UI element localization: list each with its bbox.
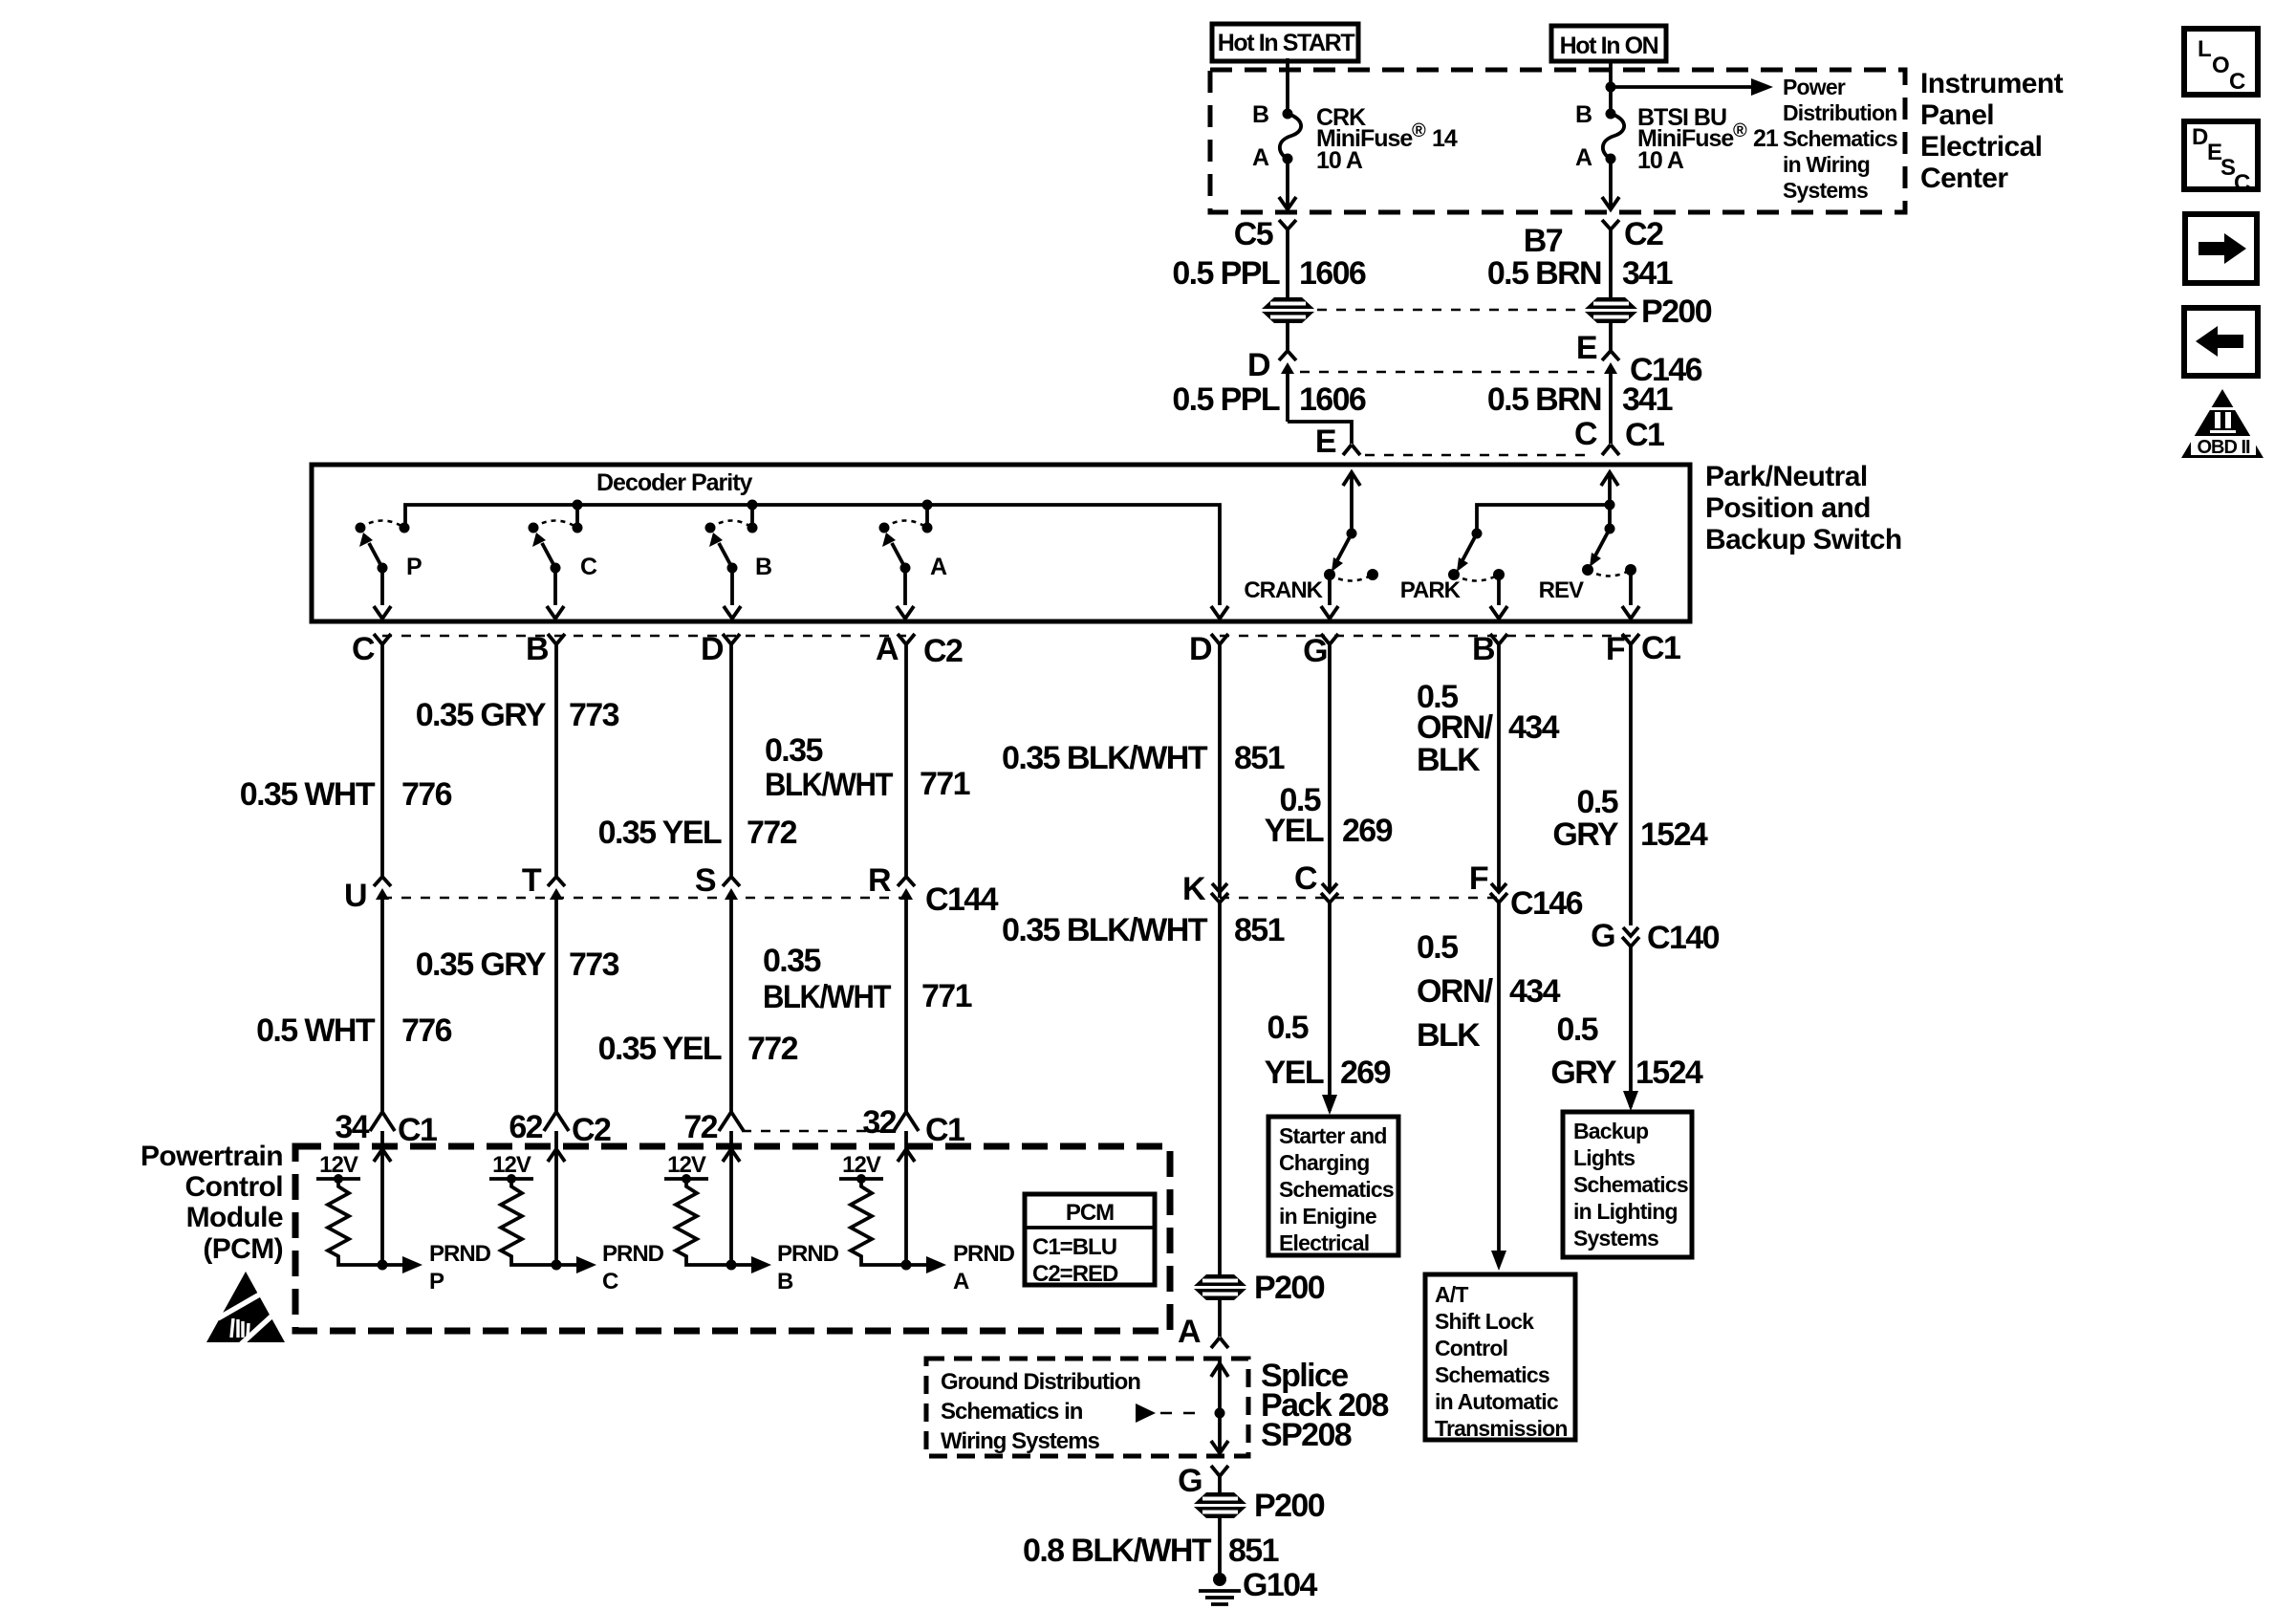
connector C2 pin 62	[509, 1109, 611, 1148]
connector C146 glyph D	[1247, 347, 1296, 422]
wire D upper segment	[729, 660, 733, 876]
svg-text:C: C	[580, 554, 597, 580]
svg-text:PRND: PRND	[953, 1241, 1015, 1267]
svg-text:P: P	[406, 554, 422, 580]
svg-text:C: C	[2229, 69, 2245, 95]
Hot In START box	[1212, 24, 1358, 61]
connector C146 glyph F	[1469, 860, 1583, 1262]
label Instrument Panel Electrical Center	[1920, 68, 2064, 194]
svg-text:C2: C2	[572, 1112, 611, 1148]
label 0.35 YEL 772 upper	[598, 815, 797, 851]
svg-text:BLK/WHT: BLK/WHT	[765, 767, 894, 803]
svg-text:G: G	[1303, 633, 1327, 669]
label 0.5 BRN 341	[1487, 255, 1673, 292]
svg-text:Decoder Parity: Decoder Parity	[596, 469, 753, 496]
svg-text:10 A: 10 A	[1637, 147, 1684, 174]
svg-text:Instrument: Instrument	[1920, 68, 2064, 99]
svg-text:Systems: Systems	[1783, 178, 1868, 203]
svg-text:B: B	[1575, 101, 1592, 128]
svg-text:Position and: Position and	[1705, 492, 1871, 524]
label 0.5 PPL 1606	[1172, 255, 1366, 292]
Powertrain Control Module dashed box	[295, 1146, 1170, 1331]
svg-text:E: E	[1576, 330, 1597, 366]
connector A into splice pack	[1178, 1314, 1228, 1350]
connector C146 glyph C	[1294, 860, 1338, 1099]
label 0.5 ORN/BLK 434 upper	[1417, 679, 1560, 778]
svg-text:B: B	[1472, 631, 1495, 667]
svg-text:PARK: PARK	[1400, 577, 1462, 603]
svg-text:Powertrain: Powertrain	[141, 1141, 283, 1172]
svg-text:A: A	[953, 1269, 969, 1295]
svg-text:Shift Lock: Shift Lock	[1435, 1309, 1534, 1334]
svg-text:C5: C5	[1234, 216, 1273, 252]
svg-text:C1=BLU: C1=BLU	[1032, 1234, 1116, 1260]
svg-text:0.35: 0.35	[763, 943, 820, 979]
svg-text:YEL: YEL	[1265, 1055, 1324, 1091]
svg-text:SP208: SP208	[1261, 1417, 1352, 1453]
svg-text:F: F	[1606, 631, 1625, 667]
label 0.5 PPL 1606 lower	[1172, 381, 1366, 418]
svg-text:14: 14	[1432, 125, 1458, 152]
label Park/Neutral Position and Backup Switch	[1705, 461, 1902, 555]
PCM channel B	[664, 1131, 839, 1295]
wire to ground	[1218, 1516, 1222, 1577]
svg-text:R: R	[868, 862, 891, 899]
svg-text:773: 773	[569, 946, 619, 983]
wire fuse CRK to IP box bottom, arrow	[1279, 159, 1296, 209]
label 0.35 BLK/WHT 771 lower	[763, 943, 972, 1015]
wire P200 to C146 right	[1609, 321, 1613, 350]
wire D right upper segment	[1218, 660, 1222, 890]
Splice Pack dashed box	[926, 1359, 1248, 1456]
svg-text:0.5: 0.5	[1267, 1010, 1309, 1046]
svg-text:T: T	[522, 862, 542, 899]
fuse BTSI BU MiniFuse 21	[1575, 101, 1779, 174]
svg-text:Schematics: Schematics	[1435, 1362, 1549, 1387]
svg-text:(PCM): (PCM)	[203, 1233, 283, 1265]
svg-text:G104: G104	[1243, 1567, 1317, 1603]
connector C146 glyph K	[1182, 871, 1228, 1275]
svg-text:Control: Control	[185, 1171, 283, 1203]
label 0.5 WHT 776 lower	[256, 1012, 452, 1049]
svg-text:D: D	[701, 631, 724, 667]
svg-text:12V: 12V	[842, 1152, 881, 1178]
svg-text:BLK: BLK	[1417, 1017, 1481, 1054]
svg-text:Schematics: Schematics	[1783, 126, 1897, 151]
svg-text:Panel: Panel	[1920, 99, 1994, 131]
svg-text:Park/Neutral: Park/Neutral	[1705, 461, 1868, 492]
svg-text:10 A: 10 A	[1316, 147, 1363, 174]
switch A	[879, 505, 948, 619]
Backup Lights Schematics box	[1563, 1112, 1692, 1257]
svg-text:0.35 WHT: 0.35 WHT	[240, 776, 376, 813]
svg-text:771: 771	[920, 766, 970, 802]
label Splice Pack 208 SP208	[1261, 1358, 1388, 1453]
switch C	[529, 521, 598, 620]
svg-text:Electrical: Electrical	[1920, 131, 2042, 163]
svg-text:C: C	[352, 631, 375, 667]
svg-text:341: 341	[1622, 255, 1673, 292]
svg-text:0.35 YEL: 0.35 YEL	[598, 1031, 722, 1067]
svg-text:P200: P200	[1641, 294, 1712, 330]
svg-text:12V: 12V	[492, 1152, 531, 1178]
svg-text:34: 34	[335, 1109, 369, 1145]
svg-text:D: D	[1189, 631, 1212, 667]
svg-text:772: 772	[747, 1031, 798, 1067]
svg-text:Schematics in: Schematics in	[941, 1399, 1083, 1425]
svg-text:B: B	[777, 1269, 793, 1295]
label 0.35 BLK/WHT 851 lower	[1002, 912, 1285, 948]
svg-text:CRANK: CRANK	[1244, 577, 1323, 603]
svg-text:0.5 PPL: 0.5 PPL	[1172, 381, 1279, 418]
PCM legend box	[1025, 1194, 1155, 1287]
connector C2 chevron (fuse 2)	[1524, 216, 1663, 259]
svg-text:C1: C1	[1641, 630, 1680, 666]
label 0.5 GRY 1524 lower	[1550, 1012, 1703, 1091]
svg-text:0.35 GRY: 0.35 GRY	[416, 697, 547, 733]
pointer arrow to splice	[1136, 1403, 1206, 1423]
Hot In ON box	[1551, 26, 1666, 61]
svg-text:776: 776	[401, 1012, 452, 1049]
svg-text:C1: C1	[1625, 417, 1664, 453]
parity bus wire	[405, 505, 1220, 605]
svg-text:Hot In START: Hot In START	[1218, 30, 1355, 56]
svg-text:Module: Module	[186, 1202, 283, 1233]
wire G upper segment	[1328, 660, 1332, 890]
switch PARK	[1400, 505, 1610, 619]
svg-text:0.5: 0.5	[1417, 929, 1458, 966]
svg-text:12V: 12V	[319, 1152, 358, 1178]
svg-text:Ground Distribution: Ground Distribution	[941, 1369, 1140, 1395]
svg-text:A/T: A/T	[1435, 1282, 1468, 1307]
svg-text:269: 269	[1342, 813, 1393, 849]
svg-text:773: 773	[569, 697, 619, 733]
arrow into Starter box	[1322, 1095, 1337, 1115]
svg-text:0.35 YEL: 0.35 YEL	[598, 815, 722, 851]
arrow into A/T Shift Lock box	[1491, 1251, 1506, 1271]
svg-text:D: D	[1247, 347, 1270, 383]
svg-text:D: D	[2192, 124, 2208, 150]
switch P	[356, 505, 578, 619]
svg-text:0.5 BRN: 0.5 BRN	[1487, 381, 1601, 418]
Park/Neutral Position and Backup Switch box	[312, 465, 1690, 621]
label 0.35 WHT 776 upper	[240, 776, 452, 813]
wire BRN C2 to P200	[1609, 229, 1613, 299]
svg-text:YEL: YEL	[1265, 813, 1324, 849]
svg-text:0.5 WHT: 0.5 WHT	[256, 1012, 376, 1049]
switch CRANK	[1244, 472, 1378, 619]
label 0.5 ORN/BLK 434 lower	[1417, 929, 1561, 1054]
inline connector P200 upper (K wire)	[1190, 1270, 1325, 1306]
svg-text:®: ®	[1412, 120, 1426, 141]
label Powertrain Control Module (PCM)	[141, 1141, 283, 1265]
connector C144 dashed line	[382, 897, 906, 900]
svg-text:K: K	[1182, 871, 1206, 907]
switch REV	[1539, 472, 1639, 619]
svg-text:U: U	[344, 878, 366, 914]
svg-text:C: C	[2234, 170, 2250, 196]
svg-text:341: 341	[1622, 381, 1673, 418]
wire P200 to C146 left	[1286, 321, 1289, 350]
svg-text:0.35: 0.35	[765, 732, 822, 769]
connector C144 glyph S	[695, 862, 740, 1113]
svg-text:C146: C146	[1510, 885, 1583, 922]
connector C146 lower dashed line	[1220, 897, 1499, 900]
connector C1 pin 32	[862, 1104, 964, 1148]
svg-text:Center: Center	[1920, 163, 2008, 194]
svg-text:in Automatic: in Automatic	[1435, 1389, 1559, 1414]
connector chevron B right	[1472, 631, 1507, 667]
svg-text:Schematics: Schematics	[1279, 1177, 1394, 1202]
connector chevron D	[701, 631, 740, 667]
icon OBD II triangle	[2181, 389, 2264, 458]
svg-text:21: 21	[1753, 125, 1779, 152]
connector C144 glyph R	[868, 862, 999, 1113]
svg-text:C1: C1	[398, 1112, 437, 1148]
svg-text:ORN/: ORN/	[1417, 973, 1494, 1010]
wire jog to E entry	[1288, 422, 1352, 444]
svg-text:1606: 1606	[1299, 381, 1366, 418]
svg-text:P: P	[429, 1269, 444, 1295]
svg-text:PCM: PCM	[1066, 1200, 1114, 1226]
svg-text:C: C	[602, 1269, 618, 1295]
dashed line C146 top	[1300, 371, 1594, 374]
svg-text:in Enigine: in Enigine	[1279, 1204, 1376, 1229]
label 0.35 BLK/WHT 771 upper	[765, 732, 970, 803]
wire C upper segment	[380, 660, 384, 876]
svg-text:1524: 1524	[1635, 1055, 1703, 1091]
svg-text:ORN/: ORN/	[1417, 709, 1494, 746]
svg-text:C140: C140	[1647, 920, 1720, 956]
svg-text:B: B	[755, 554, 771, 580]
connector E into switch box	[1315, 424, 1360, 460]
inline connector P200 right	[1581, 294, 1712, 330]
connector C144 glyph U	[344, 877, 391, 1113]
svg-text:C144: C144	[925, 881, 999, 918]
svg-text:0.5 PPL: 0.5 PPL	[1172, 255, 1279, 292]
connector C144 glyph T	[522, 862, 565, 1113]
connector chevron D right	[1189, 631, 1228, 667]
svg-text:C: C	[1574, 416, 1597, 452]
A/T Shift Lock Control box	[1425, 1274, 1575, 1441]
svg-text:F: F	[1469, 860, 1488, 897]
Instrument Panel Electrical Center dashed box	[1210, 70, 1905, 212]
svg-text:B7: B7	[1524, 223, 1563, 259]
connector C1 pin 34	[335, 1109, 437, 1148]
Starter and Charging Schematics box	[1268, 1117, 1398, 1255]
svg-text:0.5 BRN: 0.5 BRN	[1487, 255, 1601, 292]
switch B	[705, 505, 772, 619]
label 0.35 BLK/WHT 851 upper	[1002, 740, 1285, 776]
svg-text:in Lighting: in Lighting	[1573, 1199, 1678, 1224]
svg-text:Electrical: Electrical	[1279, 1230, 1369, 1255]
arrow into Backup Lights box	[1623, 1091, 1638, 1111]
svg-text:C2: C2	[923, 633, 963, 669]
svg-text:Distribution: Distribution	[1783, 100, 1896, 125]
svg-text:REV: REV	[1539, 577, 1584, 603]
connector C140 glyph G	[1591, 918, 1719, 1099]
connector chevron G	[1303, 633, 1338, 669]
svg-text:PRND: PRND	[429, 1241, 491, 1267]
wire B upper segment	[554, 660, 558, 876]
svg-text:Wiring Systems: Wiring Systems	[941, 1428, 1099, 1454]
connector G below splice pack	[1178, 1463, 1228, 1499]
connector chevron F + label C1	[1606, 630, 1680, 667]
wire Hot In ON to fuse BTSI	[1609, 61, 1613, 113]
svg-text:S: S	[695, 862, 716, 899]
svg-text:C1: C1	[925, 1112, 964, 1148]
svg-text:771: 771	[921, 978, 972, 1014]
arrow wire to Power Distribution	[1611, 78, 1773, 96]
label 0.5 GRY 1524 upper	[1552, 784, 1708, 853]
svg-text:G: G	[1591, 918, 1614, 954]
svg-text:A: A	[1178, 1314, 1201, 1350]
splice SP208 wire through box	[1211, 1359, 1228, 1456]
svg-text:72: 72	[683, 1109, 717, 1145]
PCM channel A	[839, 1131, 1015, 1295]
svg-text:Power: Power	[1783, 75, 1846, 99]
svg-text:L: L	[2198, 36, 2211, 62]
svg-text:G: G	[1178, 1463, 1202, 1499]
icon arrow right	[2185, 214, 2257, 283]
svg-text:A: A	[930, 554, 947, 580]
svg-text:1606: 1606	[1299, 255, 1366, 292]
wire F upper segment	[1629, 660, 1633, 925]
svg-text:269: 269	[1340, 1055, 1391, 1091]
label 0.35 GRY 773 upper	[416, 697, 619, 733]
svg-text:1524: 1524	[1640, 816, 1708, 853]
svg-text:Backup: Backup	[1573, 1119, 1649, 1143]
svg-text:Control: Control	[1435, 1336, 1507, 1360]
svg-text:®: ®	[1733, 120, 1747, 141]
connector pin 72	[683, 1109, 744, 1145]
svg-text:0.35 GRY: 0.35 GRY	[416, 946, 547, 983]
svg-text:A: A	[1252, 144, 1269, 171]
svg-text:0.5: 0.5	[1577, 784, 1618, 820]
wire B right upper segment	[1497, 660, 1501, 890]
svg-text:A: A	[1575, 144, 1592, 171]
label 0.35 GRY 773 lower	[416, 946, 619, 983]
icon LOC	[2184, 29, 2258, 95]
svg-text:C2=RED: C2=RED	[1032, 1261, 1118, 1287]
connector row C2/C1 below box: dashed lines	[382, 635, 906, 638]
icon arrow left	[2184, 308, 2258, 376]
svg-text:0.8 BLK/WHT: 0.8 BLK/WHT	[1023, 1533, 1212, 1569]
svg-text:C2: C2	[1624, 216, 1663, 252]
bus drop arrow D	[1211, 606, 1228, 619]
svg-text:Schematics: Schematics	[1573, 1172, 1688, 1197]
svg-text:in Wiring: in Wiring	[1783, 152, 1870, 177]
svg-text:GRY: GRY	[1550, 1055, 1617, 1091]
inline connector P200 lower	[1190, 1488, 1325, 1524]
svg-text:Hot In ON: Hot In ON	[1560, 33, 1658, 59]
svg-text:32: 32	[862, 1104, 896, 1141]
label 0.8 BLK/WHT 851	[1023, 1533, 1279, 1569]
svg-text:851: 851	[1234, 740, 1285, 776]
svg-text:Charging: Charging	[1279, 1150, 1370, 1175]
svg-text:PRND: PRND	[777, 1241, 839, 1267]
wire P200 to A	[1218, 1298, 1222, 1337]
ground G104	[1199, 1567, 1317, 1604]
svg-text:Starter and: Starter and	[1279, 1123, 1387, 1148]
svg-text:C: C	[1294, 860, 1317, 897]
inline connector P200 left	[1258, 297, 1318, 323]
svg-text:776: 776	[401, 776, 452, 813]
wire Hot In START to fuse CRK	[1286, 58, 1289, 113]
svg-text:0.35 BLK/WHT: 0.35 BLK/WHT	[1002, 912, 1208, 948]
svg-text:P200: P200	[1254, 1488, 1325, 1524]
label 0.5 YEL 269 upper	[1265, 782, 1393, 849]
svg-text:0.5: 0.5	[1557, 1012, 1598, 1048]
connector C146 glyph E	[1576, 330, 1702, 444]
connector chevron A + label C2	[876, 631, 963, 669]
connector chevron C (pin C)	[352, 631, 391, 667]
svg-text:851: 851	[1234, 912, 1285, 948]
svg-text:A: A	[876, 631, 899, 667]
svg-text:B: B	[1252, 101, 1268, 128]
svg-text:P200: P200	[1254, 1270, 1325, 1306]
svg-text:OBD II: OBD II	[2197, 437, 2250, 458]
svg-text:434: 434	[1509, 973, 1561, 1010]
svg-text:434: 434	[1508, 709, 1560, 746]
connector chevron B	[526, 631, 565, 667]
wire C5 to P200	[1286, 229, 1289, 299]
svg-text:62: 62	[509, 1109, 542, 1145]
PCM channel P	[316, 1131, 491, 1295]
svg-text:Backup Switch: Backup Switch	[1705, 524, 1902, 555]
dashed line C1 row	[1365, 454, 1591, 457]
svg-text:PRND: PRND	[602, 1241, 664, 1267]
svg-text:B: B	[526, 631, 549, 667]
junction node on BTSI wire	[1606, 82, 1616, 93]
svg-text:Lights: Lights	[1573, 1145, 1635, 1170]
svg-text:BLK/WHT: BLK/WHT	[763, 979, 892, 1015]
label 0.35 YEL 772 lower	[598, 1031, 798, 1067]
ESD sensitive symbol	[206, 1272, 285, 1344]
svg-text:Systems: Systems	[1573, 1226, 1658, 1251]
dashed pin line 72-32	[742, 1130, 892, 1133]
dashed link P200	[1317, 309, 1581, 312]
label Ground Distribution Schematics in Wiring Systems	[941, 1369, 1140, 1454]
svg-text:BLK: BLK	[1417, 742, 1481, 778]
wire A upper segment	[904, 660, 908, 876]
svg-text:O: O	[2212, 53, 2229, 78]
svg-text:0.35 BLK/WHT: 0.35 BLK/WHT	[1002, 740, 1208, 776]
svg-text:Transmission: Transmission	[1435, 1416, 1568, 1441]
svg-text:851: 851	[1228, 1533, 1279, 1569]
label 0.5 BRN 341 lower	[1487, 381, 1673, 418]
bus junction dots	[573, 500, 583, 511]
connector C5 chevron	[1234, 216, 1296, 252]
icon DESC	[2184, 121, 2258, 196]
svg-text:E: E	[1315, 424, 1336, 460]
connector C into switch box	[1574, 416, 1664, 455]
svg-text:772: 772	[747, 815, 797, 851]
note Power Distribution Schematics in Wiring Systems	[1783, 75, 1897, 203]
svg-text:12V: 12V	[667, 1152, 706, 1178]
fuse CRK MiniFuse 14	[1252, 101, 1458, 174]
wire fuse BTSI to IP box bottom, arrow	[1602, 159, 1619, 209]
label 0.5 YEL 269 lower	[1265, 1010, 1391, 1091]
PCM channel C	[489, 1131, 664, 1295]
svg-text:GRY: GRY	[1552, 816, 1619, 853]
